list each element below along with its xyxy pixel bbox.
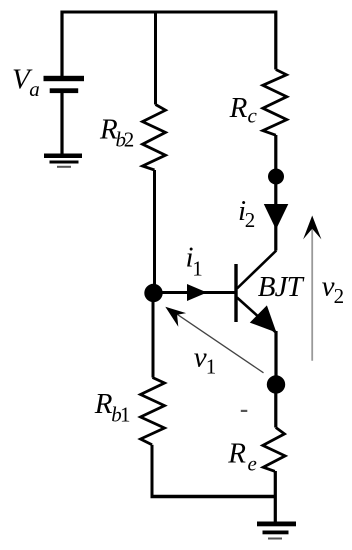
svg-text:a: a [29,77,40,101]
node base (junction dot) [144,284,162,302]
current arrow i2 [264,204,289,230]
wire Rb1 to bottom rail [151,445,154,497]
battery Va top plate [44,76,85,81]
minus sign (small gray) [241,410,248,412]
transistor BJT emitter line [237,298,276,333]
wire top rail [61,11,278,14]
transistor BJT base bar [234,264,237,322]
voltage arrow v2 (gray shaft) [311,226,313,361]
svg-text:R: R [227,438,246,470]
wire Re to ground stub [274,471,277,522]
resistor Rb2 [143,105,166,171]
wire bottom rail [151,495,276,498]
svg-text:2: 2 [124,127,135,151]
svg-text:2: 2 [334,284,345,308]
node emitter dot [267,375,285,393]
ground (bottom right) [257,522,296,540]
svg-text:BJT: BJT [258,271,305,303]
wire collector dot down [274,176,277,251]
current arrow i1 [187,284,207,301]
svg-text:c: c [248,104,258,128]
svg-text:1: 1 [120,402,131,426]
wire battery to ground [60,93,63,155]
wire left drop to battery [60,11,63,77]
wire base node to transistor base [154,291,235,294]
wire middle stub from top rail [154,11,157,105]
svg-text:1: 1 [192,257,203,281]
resistor Rc [263,70,287,136]
wire right drop from top rail to Rc [274,11,277,70]
resistor Rb1 [141,378,165,445]
node collector dot [268,169,284,185]
svg-text:2: 2 [245,208,256,232]
voltage arrow v1 shaft [172,311,264,373]
voltage arrow v1 head [165,307,186,327]
wire Rc to collector dot [274,135,277,176]
transistor BJT collector line [237,251,276,289]
svg-text:R: R [94,388,113,420]
svg-text:R: R [229,92,248,124]
wire emitter dot to Re [274,384,277,428]
resistor Re [263,428,285,472]
svg-text:e: e [248,452,257,476]
wire base node down to Rb1 [152,292,155,378]
voltage arrow v2 head [303,216,321,240]
wire Rb2 to base node [153,170,156,292]
transistor BJT emitter arrowhead [250,305,277,332]
battery Va bottom plate [50,88,78,93]
svg-text:1: 1 [206,355,217,379]
wire emitter arrow to emitter dot [274,331,277,384]
ground (left, under Va) [44,154,82,168]
